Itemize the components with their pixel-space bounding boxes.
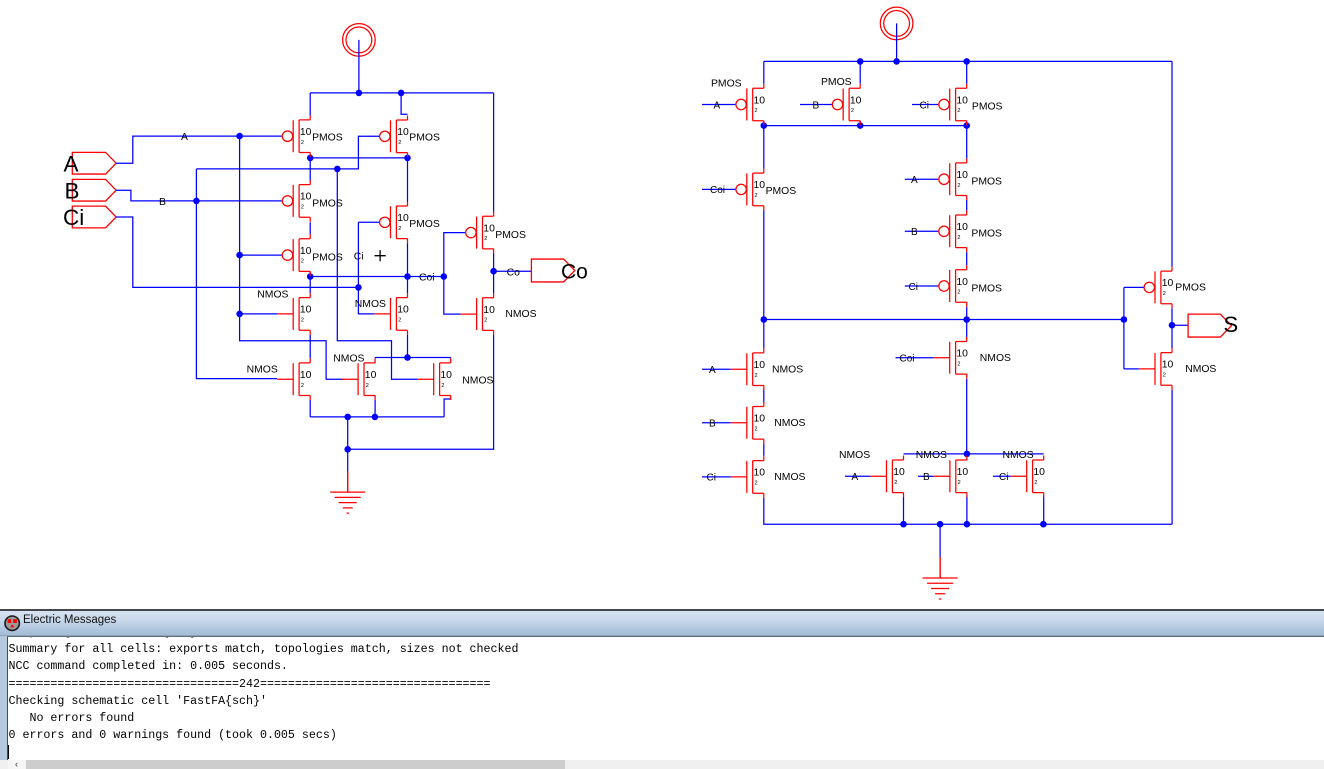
wire net A stub to PA2 gate [905, 178, 939, 180]
transistor PCi2 (PMOS) [939, 265, 967, 307]
wire PCi2 drain to node [966, 307, 968, 320]
svg-text:10: 10 [754, 468, 766, 479]
wire NB-NCi link [763, 444, 765, 456]
svg-text:Co: Co [507, 267, 521, 278]
wire Coi to N6 gate [444, 277, 461, 315]
svg-text:2: 2 [398, 140, 401, 146]
svg-text:10: 10 [300, 305, 312, 316]
node N4 ground junction [372, 414, 379, 421]
wire power stem to VDD rail [358, 40, 360, 93]
wire parallel NMOS drain wire [904, 453, 1044, 455]
wire node to inverter gates [1123, 287, 1125, 369]
node PA drain junction [761, 122, 768, 129]
wire wire to PA2 source [966, 126, 968, 159]
svg-text:2: 2 [301, 383, 304, 389]
svg-text:10: 10 [754, 180, 766, 191]
svg-text:PMOS: PMOS [821, 77, 852, 88]
wire net B from pin [116, 190, 282, 201]
transistor N1 (NMOS) [277, 293, 310, 335]
node ground stem junction [344, 414, 351, 421]
svg-text:NMOS: NMOS [505, 309, 536, 320]
node P2 drain [404, 155, 411, 162]
svg-text:A: A [709, 365, 716, 376]
wire net B stub to NB gate [702, 422, 731, 424]
svg-text:A: A [714, 100, 721, 111]
svg-text:10: 10 [300, 127, 312, 138]
node gnd stem junction right [937, 521, 944, 528]
svg-text:10: 10 [397, 213, 409, 224]
ground symbol GND2 [923, 557, 958, 599]
svg-text:2: 2 [301, 140, 304, 146]
transistor N2B (NMOS) [934, 456, 967, 498]
wire PCoi drain to node [763, 210, 765, 319]
wire ground stem right [939, 524, 941, 557]
transistor N2A (NMOS) [870, 456, 903, 498]
svg-text:PMOS: PMOS [1175, 283, 1206, 294]
svg-text:Ci: Ci [999, 472, 1008, 483]
wire net B stub to N2B gate [918, 475, 934, 477]
transistor NB (NMOS) [731, 402, 764, 444]
ground lead red (right) [939, 557, 941, 578]
svg-text:PMOS: PMOS [711, 78, 742, 89]
node N2B gnd [964, 521, 971, 528]
svg-text:S: S [1224, 312, 1239, 337]
svg-text:NMOS: NMOS [916, 450, 947, 461]
svg-text:2: 2 [1163, 291, 1166, 297]
wire VDD rail down to PS source [1171, 61, 1173, 266]
svg-text:PMOS: PMOS [312, 132, 343, 143]
svg-text:A: A [181, 132, 188, 143]
svg-text:2: 2 [484, 318, 487, 324]
svg-text:10: 10 [300, 246, 312, 257]
svg-text:10: 10 [365, 370, 377, 381]
transistor P4 (PMOS) [282, 234, 310, 276]
wire NCi source to ground rail [764, 498, 1172, 525]
wire ground stem [347, 417, 349, 471]
svg-text:NMOS: NMOS [355, 299, 386, 310]
wire VDD to P2 source (jog) [401, 93, 407, 114]
node N6 ground junction [344, 446, 351, 453]
node N2A gnd [900, 521, 907, 528]
svg-text:A: A [852, 472, 859, 483]
svg-text:2: 2 [301, 318, 304, 324]
transistor NCi (NMOS) [731, 456, 764, 498]
transistor PA2 (PMOS) [939, 158, 967, 200]
svg-text:2: 2 [755, 426, 758, 432]
svg-text:2: 2 [366, 383, 369, 389]
wire net A stub to N2A gate [845, 475, 870, 477]
transistor N6 (NMOS) [461, 293, 494, 335]
svg-text:Ci: Ci [920, 100, 929, 111]
svg-text:10: 10 [956, 222, 968, 233]
wire net Coi stub to NCoi gate [896, 357, 934, 359]
svg-text:NMOS: NMOS [774, 418, 805, 429]
horizontal scrollbar [0, 760, 1324, 769]
svg-text:Coi: Coi [419, 273, 435, 284]
wire net Coi stub to PCoi gate [702, 188, 735, 190]
svg-text:10: 10 [956, 170, 968, 181]
wire VDD to P1 source [309, 93, 311, 116]
svg-text:2: 2 [484, 236, 487, 242]
wire PB2-PCi2 link [966, 252, 968, 265]
svg-text:10: 10 [483, 223, 495, 234]
svg-text:10: 10 [440, 370, 452, 381]
node PCi drain junction [963, 122, 970, 129]
svg-text:10: 10 [1162, 360, 1174, 371]
node VDD stem junction right [893, 58, 900, 65]
node B tap [193, 198, 200, 205]
wire P6 drain to N6 drain [493, 253, 495, 293]
transistor N3 (NMOS) [277, 358, 310, 400]
svg-text:2: 2 [301, 259, 304, 265]
wire N4-N5 drain wire [375, 357, 451, 360]
transistor N2 (NMOS) [374, 293, 407, 335]
wire Coi down to N1 [309, 277, 311, 294]
svg-text:2: 2 [958, 480, 961, 486]
svg-text:B: B [65, 178, 80, 203]
svg-text:10: 10 [754, 414, 766, 425]
svg-text:10: 10 [1033, 467, 1045, 478]
node P1 drain [307, 155, 314, 162]
wire Co node to pin [494, 270, 532, 272]
svg-text:2: 2 [755, 373, 758, 379]
svg-text:PMOS: PMOS [971, 229, 1002, 240]
wire N2B source down [966, 497, 968, 525]
wire VDD to PB source [859, 61, 861, 83]
svg-text:NMOS: NMOS [772, 365, 803, 376]
wire net B upper run [196, 136, 379, 169]
wire VDD rail down to P6 source [493, 93, 495, 212]
transistor P2 (PMOS) [380, 116, 408, 158]
svg-text:10: 10 [957, 467, 969, 478]
wire P1-P2 drain wire [310, 157, 407, 159]
wire net B stub to PB gate [800, 104, 832, 106]
node B to N5 branch [334, 166, 341, 173]
wire Ci to P5 gate [358, 221, 379, 223]
wire net A vertical [240, 136, 343, 379]
transistor N5 (NMOS) [418, 358, 451, 400]
svg-text:PMOS: PMOS [972, 102, 1003, 113]
svg-text:NMOS: NMOS [839, 450, 870, 461]
wire VDD rail (left schematic) [310, 92, 493, 94]
transistor NS (NMOS) [1139, 348, 1172, 390]
log text [9, 641, 519, 744]
wire P1 drain to P3 source [309, 158, 311, 181]
node Coi to output inverter [441, 273, 448, 280]
svg-text:Ci: Ci [354, 251, 364, 262]
wire VDD to PCi source [966, 61, 968, 83]
svg-text:NMOS: NMOS [1185, 364, 1216, 375]
ground lead red (left) [347, 471, 349, 492]
wire PS drain to NS drain [1171, 308, 1173, 348]
wire N4 source to ground [374, 400, 376, 417]
wire net A stub to NA gate [702, 368, 731, 370]
transistor PS (PMOS) [1144, 267, 1172, 309]
transistor PA (PMOS) [736, 84, 764, 126]
power symbol PWR2 (VDD) [880, 7, 913, 40]
svg-text:10: 10 [300, 192, 312, 203]
svg-text:10: 10 [754, 95, 766, 106]
node VDD-PCi junction [963, 58, 970, 65]
svg-text:PMOS: PMOS [766, 186, 797, 197]
svg-text:Ci: Ci [707, 473, 716, 484]
svg-text:A: A [911, 175, 918, 186]
title bar [0, 609, 1324, 636]
svg-text:10: 10 [956, 95, 968, 106]
wire N6 source to ground run [348, 335, 494, 450]
svg-text:2: 2 [755, 193, 758, 199]
transistor P6 (PMOS) [466, 212, 494, 254]
wire net A from pin [116, 136, 282, 163]
svg-text:10: 10 [956, 277, 968, 288]
svg-text:NMOS: NMOS [980, 353, 1011, 364]
wire Coi to P6 gate [444, 233, 465, 277]
svg-text:NMOS: NMOS [774, 472, 805, 483]
transistor P5 (PMOS) [380, 202, 408, 244]
svg-text:B: B [813, 100, 820, 111]
svg-text:10: 10 [956, 349, 968, 360]
clipped previous log line [9, 637, 274, 639]
ground symbol GND1 [330, 471, 365, 513]
node node middle [963, 316, 970, 323]
wire P3-P4 series link [309, 222, 311, 234]
port A (input export) [72, 152, 116, 174]
wire net B stub to PB2 gate [905, 230, 939, 232]
node P4 drain / N1 drain [307, 273, 314, 280]
node VDD-stem junction [356, 90, 363, 97]
svg-text:2: 2 [1034, 480, 1037, 486]
svg-text:2: 2 [1163, 373, 1166, 379]
node output S node [1169, 322, 1176, 329]
transistor PB2 (PMOS) [939, 211, 967, 253]
svg-text:Coi: Coi [710, 185, 725, 196]
svg-text:PMOS: PMOS [495, 230, 526, 241]
wire PA2-PB2 link [966, 200, 968, 211]
wire N3 source to ground [309, 400, 311, 417]
svg-text:10: 10 [754, 360, 766, 371]
svg-text:2: 2 [755, 481, 758, 487]
node node right [1121, 316, 1128, 323]
svg-text:2: 2 [755, 108, 758, 114]
node PB drain junction [857, 122, 864, 129]
transistor PB (PMOS) [832, 84, 860, 126]
wire P5 drain link [407, 243, 409, 276]
svg-text:2: 2 [957, 108, 960, 114]
svg-text:PMOS: PMOS [409, 219, 440, 230]
wire A to P4 gate [240, 254, 282, 256]
caret [8, 745, 9, 759]
wire net B vertical to N3 gate [196, 169, 277, 379]
svg-text:10: 10 [1162, 278, 1174, 289]
wire net Ci from pin [116, 217, 358, 287]
node node left [761, 316, 768, 323]
transistor P1 (PMOS) [282, 115, 310, 157]
wire net A stub to PA gate [702, 104, 735, 106]
wire VDD rail (right) [764, 60, 1172, 62]
svg-text:PMOS: PMOS [312, 253, 343, 264]
svg-text:A: A [64, 152, 79, 177]
transistor NA (NMOS) [731, 348, 764, 390]
Electric icon [4, 615, 21, 632]
svg-text:2: 2 [894, 480, 897, 486]
svg-text:PMOS: PMOS [409, 133, 440, 144]
wire net Ci stub to PCi2 gate [905, 285, 939, 287]
svg-text:B: B [911, 227, 918, 238]
svg-text:NMOS: NMOS [247, 365, 278, 376]
svg-text:10: 10 [483, 305, 495, 316]
wire NCoi source down [966, 379, 968, 454]
svg-text:2: 2 [441, 383, 444, 389]
svg-text:2: 2 [398, 226, 401, 232]
wire N2A source down [903, 497, 905, 525]
svg-text:PMOS: PMOS [971, 283, 1002, 294]
node Ci junction [355, 284, 362, 291]
transistor N2Ci (NMOS) [1011, 456, 1044, 498]
node A to P4 gate [236, 252, 243, 259]
svg-text:B: B [159, 197, 166, 208]
svg-text:2: 2 [851, 108, 854, 114]
svg-text:B: B [709, 419, 716, 430]
window title [23, 614, 116, 626]
svg-text:10: 10 [893, 467, 905, 478]
wire N1 to N3 series [309, 335, 311, 359]
node N2Ci gnd [1040, 521, 1047, 528]
svg-text:2: 2 [957, 290, 960, 296]
wire power stem right [896, 23, 898, 61]
svg-text:PMOS: PMOS [312, 198, 343, 209]
wire node to NA drain [763, 320, 765, 349]
wire Ci vertical to P5 and N2 gates [358, 222, 374, 314]
svg-text:Ci: Ci [63, 205, 84, 230]
client text area [0, 636, 1324, 769]
node N2 to row2 wire [404, 354, 411, 361]
Electric Messages window [0, 609, 1324, 769]
wire net Ci stub to N2Ci gate [993, 475, 1011, 477]
svg-text:NMOS: NMOS [333, 353, 364, 364]
wire top PMOS drain wire [764, 125, 967, 127]
port B (input export) [72, 179, 116, 201]
node output Co node [490, 268, 497, 275]
svg-text:Co: Co [561, 261, 588, 284]
transistor N4 (NMOS) [342, 358, 375, 400]
svg-text:NMOS: NMOS [1003, 450, 1034, 461]
wire S-node wire [764, 319, 1124, 321]
wire B branch to N5 gate [337, 169, 417, 379]
transistor PCi (PMOS) [939, 84, 967, 126]
wire ground rail up to NS source [1171, 390, 1173, 525]
wire NA-NB link [763, 390, 765, 402]
wire N2Ci source down [1043, 497, 1045, 525]
wire Coi down to N2 [407, 277, 409, 294]
wire node to NCoi drain [966, 320, 968, 337]
wire net Ci stub to NCi gate [702, 476, 731, 478]
svg-text:10: 10 [397, 127, 409, 138]
wire S node to pin [1172, 324, 1188, 326]
transistor NCoi (NMOS) [934, 337, 967, 379]
svg-text:10: 10 [300, 370, 312, 381]
svg-text:2: 2 [957, 183, 960, 189]
node P5 drain / N2 drain [404, 273, 411, 280]
node NCoi-N2B junction [964, 451, 971, 458]
svg-text:Ci: Ci [909, 282, 918, 293]
svg-text:2: 2 [301, 205, 304, 211]
wire to PS gate [1124, 286, 1144, 288]
svg-text:NMOS: NMOS [257, 289, 288, 300]
wire ground rail (left) [310, 416, 444, 418]
wire net Coi [310, 276, 444, 278]
wire PB drain link [859, 121, 861, 126]
wire wire to PCoi source [763, 126, 765, 169]
port Co (output export) [531, 259, 574, 282]
transistor P3 (PMOS) [282, 180, 310, 222]
svg-text:2: 2 [957, 361, 960, 367]
wire P4 drain link [309, 271, 311, 276]
svg-text:Coi: Coi [900, 354, 915, 365]
wire to NS gate [1124, 368, 1139, 370]
node VDD-PB junction [857, 58, 864, 65]
wire N5 source to ground (jog) [444, 399, 451, 417]
power symbol PWR1 (VDD) [343, 24, 376, 57]
wire P2 drain to P5 source [407, 158, 409, 202]
svg-text:2: 2 [398, 318, 401, 324]
cursor crosshair [375, 250, 386, 261]
wire N2 drain down [407, 335, 409, 358]
svg-text:B: B [923, 472, 930, 483]
wire A to N1 gate [240, 313, 278, 315]
port S (output export) [1188, 314, 1231, 337]
wire VDD to PA source [763, 61, 765, 83]
svg-text:2: 2 [957, 235, 960, 241]
node VDD-P2 junction [398, 90, 405, 97]
node A to N1 gate [236, 311, 243, 318]
wire net Ci stub to PCi gate [912, 104, 938, 106]
transistor PCoi (PMOS) [736, 169, 764, 211]
port Ci (input export) [72, 206, 116, 228]
svg-text:10: 10 [397, 305, 409, 316]
svg-text:PMOS: PMOS [971, 177, 1002, 188]
svg-text:NMOS: NMOS [462, 375, 493, 386]
svg-text:10: 10 [850, 95, 862, 106]
node A tap [236, 133, 243, 140]
